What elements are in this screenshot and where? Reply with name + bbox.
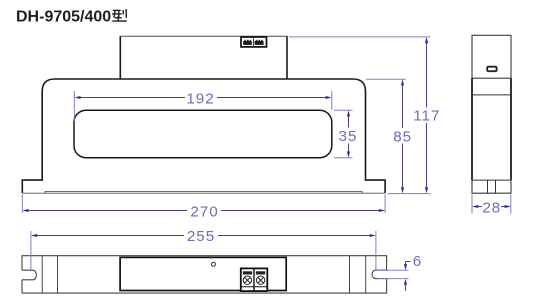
svg-text:270: 270 (190, 203, 218, 220)
bottom view inner recessed rectangle (120, 257, 286, 290)
top terminal block (front view) (119, 36, 121, 79)
title DH-9705/400型 (16, 9, 127, 26)
window opening (front view) (74, 110, 332, 158)
left mounting slot (22, 270, 36, 280)
terminal icon on top block (241, 37, 267, 47)
bottom view outline with mounting slots (22, 256, 387, 293)
svg-text:85: 85 (393, 128, 412, 145)
bottom edge line (front view) (22, 192, 385, 194)
svg-text:28: 28 (482, 200, 501, 217)
side view body edges (471, 78, 473, 180)
svg-text:255: 255 (187, 228, 215, 245)
svg-text:117: 117 (413, 108, 440, 125)
main body outline (front view) (22, 79, 385, 193)
side view slot detail (487, 67, 496, 72)
svg-text:35: 35 (339, 128, 358, 145)
svg-text:192: 192 (186, 90, 214, 107)
side view outline (472, 35, 511, 78)
svg-text:DH-9705/400: DH-9705/400 (16, 9, 111, 26)
side view foot section (472, 180, 511, 193)
side view horizontal split lines (472, 94, 511, 96)
terminal block (bottom view) (241, 268, 267, 291)
small hole (211, 262, 215, 266)
right mounting slot (372, 270, 387, 279)
bottom view end cap lines (41, 256, 43, 293)
recessed bottom line (front view) (45, 191, 362, 193)
svg-text:6: 6 (413, 253, 422, 270)
